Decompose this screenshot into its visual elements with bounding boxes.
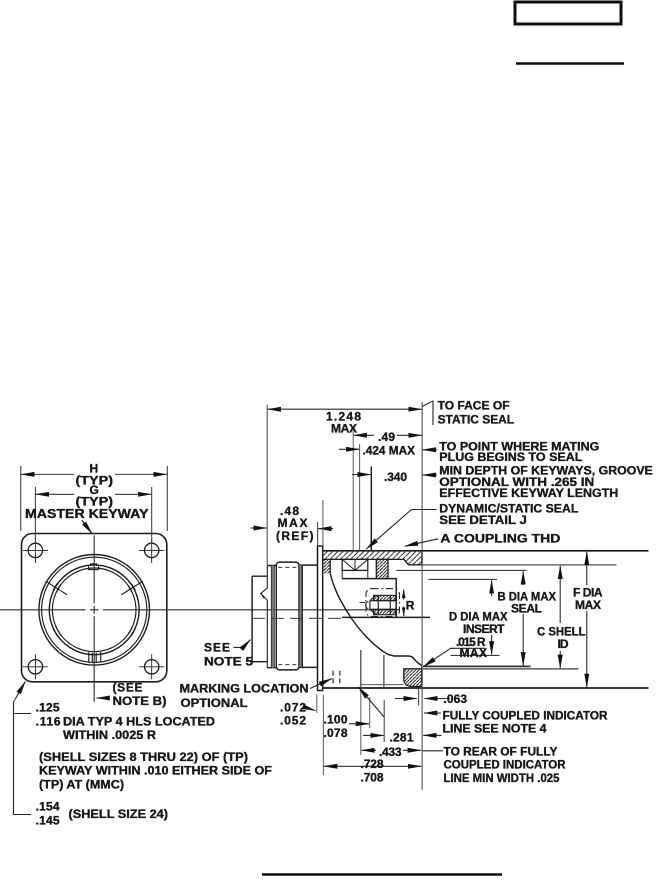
- svg-text:LINE SEE NOTE 4: LINE SEE NOTE 4: [443, 722, 547, 736]
- svg-text:MAX: MAX: [575, 598, 601, 612]
- see note b label: [113, 680, 167, 708]
- C shell bottom line: [423, 668, 579, 670]
- svg-text:OPTIONAL: OPTIONAL: [181, 696, 248, 710]
- svg-text:.063: .063: [444, 692, 468, 706]
- C shell top line: [423, 564, 617, 566]
- svg-text:.424 MAX: .424 MAX: [363, 443, 416, 457]
- shell OD top line: [323, 550, 649, 552]
- svg-text:(REF): (REF): [276, 529, 314, 543]
- svg-text:.078: .078: [324, 726, 348, 740]
- dim .424 MAX: [339, 448, 437, 451]
- dim .49: [354, 434, 422, 436]
- shell front face (bottom rim): [421, 667, 423, 684]
- title box (redacted header): [515, 2, 621, 24]
- dim .340: [352, 474, 437, 477]
- dim .433: [361, 688, 421, 755]
- fully coupled leader: [424, 712, 441, 714]
- shell interior S-curve: [330, 573, 422, 665]
- svg-text:R: R: [406, 598, 415, 612]
- see note 5 leader: [234, 640, 251, 648]
- insert face line: [429, 579, 500, 655]
- ext line rear face: [266, 405, 268, 566]
- mounting hole top-right: [139, 538, 164, 563]
- contact centerline dash-dot: [360, 602, 369, 604]
- shell sizes note: [39, 750, 272, 792]
- dim .063: [395, 689, 450, 706]
- svg-text:MASTER KEYWAY: MASTER KEYWAY: [25, 506, 149, 521]
- svg-text:COUPLED INDICATOR: COUPLED INDICATOR: [444, 758, 566, 772]
- A coupling thd leader: [405, 539, 438, 546]
- to face of static seal label: [422, 398, 514, 426]
- svg-text:FULLY COUPLED INDICATOR: FULLY COUPLED INDICATOR: [443, 708, 608, 722]
- A coupling thd label: [440, 532, 560, 546]
- svg-text:MARKING LOCATION: MARKING LOCATION: [180, 681, 309, 695]
- svg-text:.145: .145: [36, 814, 60, 828]
- dimension H: [21, 466, 168, 531]
- see note 5 label: [204, 641, 253, 669]
- vertical centerline: [93, 536, 95, 703]
- .015 R MAX label: [456, 635, 487, 660]
- svg-text:TO REAR OF FULLY: TO REAR OF FULLY: [444, 744, 558, 758]
- svg-text:.49: .49: [378, 430, 395, 444]
- master keyway notch: [89, 564, 99, 570]
- ext line static seal face: [421, 402, 423, 790]
- horizontal centerline: [0, 609, 399, 611]
- svg-text:.708: .708: [361, 771, 384, 785]
- to rear leader: [423, 750, 444, 752]
- dynamic/static seal block: [342, 559, 368, 578]
- svg-text:.100: .100: [324, 713, 348, 727]
- ext line x371: [370, 467, 372, 551]
- dim 1.248 MAX: [268, 408, 422, 410]
- svg-text:(SHELL SIZES 8 THRU 22) OF (TP: (SHELL SIZES 8 THRU 22) OF (TP): [39, 750, 248, 764]
- coupling nut drum: [276, 562, 299, 670]
- dim .728/.708: [323, 695, 421, 775]
- dim R: [403, 590, 405, 616]
- mounting flange (section): [318, 546, 323, 691]
- svg-text:PLUG BEGINS TO SEAL: PLUG BEGINS TO SEAL: [439, 450, 582, 464]
- svg-text:SEAL: SEAL: [511, 602, 542, 616]
- svg-text:WITHIN .0025 R: WITHIN .0025 R: [63, 728, 156, 742]
- svg-text:INSERT: INSERT: [463, 622, 505, 636]
- marking location leader: [310, 679, 332, 689]
- dim .281: [363, 700, 442, 742]
- mounting hole bottom-left: [23, 654, 48, 679]
- contact hex body: [366, 595, 396, 614]
- svg-text:.116: .116: [36, 715, 61, 729]
- svg-text:(TP) AT (MMC): (TP) AT (MMC): [39, 777, 124, 791]
- ring ticks lower-right: [128, 627, 135, 636]
- keyway indicator diagonal upper-left: [46, 581, 68, 595]
- dim .48 MAX (REF): [251, 500, 334, 545]
- front ring of rear shell: [299, 565, 318, 667]
- indicator groove steps: [361, 650, 404, 688]
- rear nut ring: [267, 566, 276, 668]
- insert cavity top: [342, 579, 430, 618]
- dashed hidden centerline y618: [252, 617, 341, 619]
- bottom front hatched nose: [404, 669, 422, 687]
- svg-text:.340: .340: [384, 470, 407, 484]
- dim F dia: [586, 552, 588, 687]
- marking location label: [180, 681, 309, 710]
- svg-text:SEE DETAIL J: SEE DETAIL J: [439, 513, 527, 527]
- coupling thread hatched band: [324, 551, 422, 565]
- keyway indicator diagonal upper-right: [121, 581, 143, 595]
- see note b arrow: [97, 697, 109, 699]
- minor keyways bottom: [89, 652, 101, 663]
- .154/.145 label: [36, 800, 168, 828]
- min depth of keyways label: [439, 464, 653, 501]
- svg-text:.154: .154: [36, 800, 60, 814]
- B seal bottom line (indicator band): [423, 665, 531, 667]
- svg-text:MAX: MAX: [331, 422, 357, 436]
- svg-text:KEYWAY WITHIN .010 EITHER SIDE: KEYWAY WITHIN .010 EITHER SIDE OF: [39, 764, 272, 778]
- indicator line leader diagonal: [358, 687, 384, 717]
- MASTER KEYWAY label: [25, 506, 149, 521]
- master keyway leader: [82, 520, 92, 534]
- svg-text:NOTE 5: NOTE 5: [204, 654, 253, 668]
- marking location ticks: [333, 671, 340, 684]
- .015 R leader: [423, 648, 485, 666]
- svg-text:ID: ID: [558, 637, 569, 651]
- dim D dia: [491, 580, 493, 654]
- svg-text:TO FACE OF: TO FACE OF: [438, 398, 510, 412]
- svg-text:STATIC SEAL: STATIC SEAL: [438, 412, 514, 426]
- dim .072/.052: [307, 694, 317, 713]
- dynamic/static seal label: [439, 502, 578, 527]
- svg-text:A COUPLING THD: A COUPLING THD: [440, 532, 560, 546]
- dynamic/static seal leader: [366, 510, 436, 550]
- svg-text:SEE: SEE: [204, 641, 230, 655]
- footer line: [262, 873, 502, 876]
- mounting hole bottom-right: [139, 654, 164, 679]
- B seal top line: [396, 569, 526, 571]
- to point where mating plug label: [439, 439, 599, 464]
- dim C shell id: [559, 566, 561, 668]
- dimension G: [35, 487, 151, 544]
- svg-text:LINE MIN WIDTH .025: LINE MIN WIDTH .025: [444, 771, 560, 785]
- svg-text:.052: .052: [280, 714, 306, 728]
- ring ticks lower-left: [53, 627, 60, 636]
- ext line x359: [359, 444, 361, 551]
- svg-text:.728: .728: [361, 757, 384, 771]
- fully coupled indicator label: [443, 708, 608, 735]
- shell front face (top rim): [421, 551, 423, 565]
- keyway tooth block: [376, 559, 388, 578]
- mounting hole top-left: [23, 538, 48, 563]
- contact hatched bottom band: [374, 609, 396, 614]
- .125/.116 hole size label: [36, 701, 216, 742]
- svg-text:(SEE: (SEE: [113, 680, 143, 694]
- shell OD bottom line: [323, 687, 649, 689]
- to rear of fully coupled label: [444, 744, 566, 785]
- svg-text:.072: .072: [280, 700, 306, 714]
- svg-text:.281: .281: [390, 730, 414, 744]
- contact phantom box: [366, 589, 400, 617]
- mounting flange outline: [22, 534, 167, 682]
- hole leader polyline: [14, 682, 32, 815]
- svg-text:DIA TYP 4 HLS LOCATED: DIA TYP 4 HLS LOCATED: [63, 715, 215, 729]
- dim .100/.078: [349, 697, 370, 728]
- svg-text:NOTE B): NOTE B): [113, 694, 167, 708]
- shell circles: [39, 555, 150, 666]
- svg-text:(SHELL SIZE 24): (SHELL SIZE 24): [69, 807, 169, 821]
- svg-text:EFFECTIVE KEYWAY LENGTH: EFFECTIVE KEYWAY LENGTH: [439, 486, 618, 500]
- rear accessory section with break: [252, 566, 267, 668]
- shell wall strip behind flange: [324, 559, 331, 573]
- header underline: [516, 62, 624, 65]
- ext line x353: [352, 431, 354, 551]
- dim B dia: [522, 571, 524, 665]
- contact hatched top band: [374, 595, 396, 600]
- svg-text:.125: .125: [36, 701, 60, 715]
